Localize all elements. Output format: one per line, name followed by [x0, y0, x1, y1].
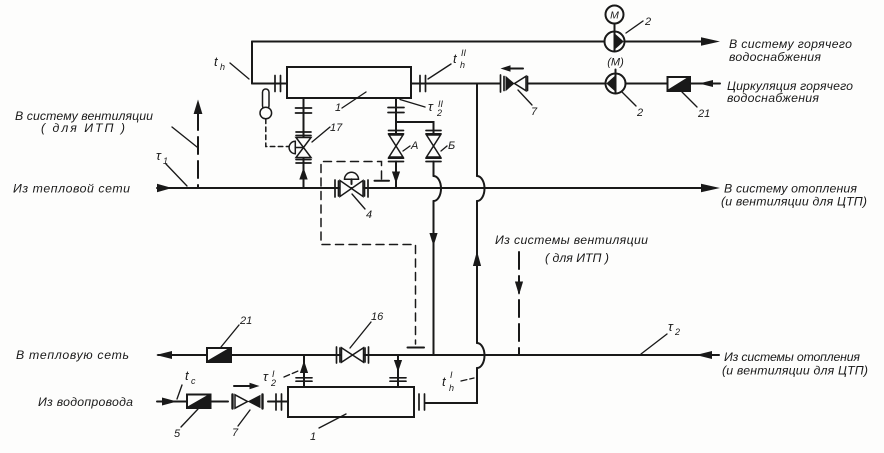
label tau2^I with leader: [263, 369, 298, 388]
label 2 (supply pump): [626, 16, 651, 33]
filter 21 (circulation line mud filter): [668, 77, 691, 91]
riser from HX2 to circulation junction: [425, 84, 485, 404]
label t_h^I with leader: [442, 370, 474, 393]
label tau2^II with leader: [400, 99, 444, 118]
label tau_1 with leader: [156, 148, 187, 186]
svg-text:c: c: [191, 376, 196, 386]
label 1 (bottom heat exchanger): [310, 414, 346, 443]
leader ventilation text: [172, 127, 197, 147]
valve 17 (temperature regulator valve): [289, 138, 311, 158]
wire check valve to pump: [528, 83, 606, 85]
wire branch to valve B: [396, 122, 434, 133]
heat exchanger 1 (stage II, top): [287, 67, 411, 98]
flange pair below valve 17: [296, 160, 311, 164]
thermometer (hot water sensor): [260, 89, 290, 147]
svg-text:В тепловую сеть: В тепловую сеть: [16, 348, 129, 362]
svg-text:В систему горячего: В систему горячего: [729, 37, 852, 51]
svg-text:Из водопровода: Из водопровода: [38, 395, 133, 409]
svg-text:1: 1: [163, 156, 168, 166]
label 17: [312, 122, 343, 142]
wire filter to circulation inlet arrow: [690, 83, 720, 85]
svg-text:21: 21: [697, 108, 710, 120]
arrow cold water in (points right): [162, 398, 177, 406]
wire HX1 right stub to junction: [411, 83, 500, 85]
flange pair below HX1 (tap): [296, 108, 312, 113]
control valve 4 (flow regulator): [335, 172, 368, 197]
wire main heat network line y=188: [157, 187, 703, 189]
arrow to heat network (points left): [156, 351, 172, 359]
arrow to heating system (right end): [701, 184, 720, 193]
label t_h with leader: [214, 54, 249, 79]
svg-text:2: 2: [644, 16, 651, 28]
label 21 (circulation filter): [682, 92, 710, 120]
wire cold water line y=401.5: [157, 401, 187, 403]
flange pair tau2 tap: [388, 108, 404, 113]
svg-text:2: 2: [436, 108, 442, 118]
svg-text:Из системы отопления: Из системы отопления: [724, 350, 860, 364]
dashed riser to ventilation system (ITP): [194, 100, 203, 189]
wire hot-water supply header t_h (top line y=41.5): [252, 41, 703, 43]
svg-text:В систему отопления: В систему отопления: [724, 182, 857, 196]
valve 17 branch: wire HX1 bottom-left tap: [303, 98, 305, 137]
arrow from heating system (points left, right end): [696, 351, 712, 359]
svg-text:16: 16: [371, 311, 384, 323]
wire HX1 bottom-right tap (tau2^II): [395, 98, 397, 133]
label t_h^II with leader: [428, 48, 467, 79]
svg-text:А: А: [410, 140, 418, 152]
svg-text:2: 2: [636, 107, 643, 119]
flange pair HX1 right: [420, 76, 426, 92]
svg-text:5: 5: [174, 428, 181, 440]
svg-text:2: 2: [674, 327, 680, 337]
svg-text:21: 21: [239, 315, 252, 327]
wire HX2 right tap down from return line with arrow: [394, 355, 402, 387]
svg-text:17: 17: [330, 122, 343, 134]
dashed impulse line of regulator: [321, 162, 416, 345]
svg-text:Из системы вентиляции: Из системы вентиляции: [495, 233, 648, 247]
label A: [403, 140, 418, 152]
filter 5 (cold water): [187, 395, 211, 409]
valve A: [389, 131, 404, 162]
valve B: [426, 131, 441, 162]
text annotations: [13, 37, 868, 409]
label 16: [350, 311, 384, 348]
label 5: [174, 409, 198, 440]
label 21 (return filter): [221, 315, 252, 347]
arrow to hot water system: [701, 37, 720, 46]
arrow circulation incoming (points left): [699, 80, 713, 87]
svg-text:водоснабжения: водоснабжения: [729, 50, 821, 64]
flange pair HX2 left: [276, 394, 282, 410]
svg-text:2: 2: [270, 378, 276, 388]
svg-text:(и вентиляции для ЦТП): (и вентиляции для ЦТП): [721, 195, 867, 209]
flange pair HX1 left: [275, 76, 281, 92]
arrow from heat network (points right at start): [157, 184, 172, 192]
svg-text:II: II: [461, 48, 467, 58]
pressure tap on return line: [408, 347, 425, 349]
wire return line y=355: [158, 354, 719, 356]
wire valve B down, hop over main line, to return line: [429, 162, 441, 356]
svg-text:4: 4: [366, 209, 372, 221]
label 2 (circulation pump): [622, 92, 643, 119]
pump 2 (hot water supply pump, flow right): [605, 6, 625, 52]
flange pair HX2 right tap: [390, 378, 406, 381]
flow arrow left above check valve 7: [501, 65, 524, 71]
pump 2 (circulation pump, flow left): [606, 57, 626, 94]
valve 16 (bypass gate valve): [337, 347, 369, 363]
svg-text:7: 7: [232, 427, 239, 439]
filter 21 (return line): [207, 348, 231, 362]
svg-text:М: М: [610, 10, 619, 22]
check valve 7 (circulation line): [501, 75, 528, 92]
wire pump to filter: [626, 83, 668, 85]
label t_c with leader: [177, 368, 196, 399]
flow arrow right above check valve 7: [234, 383, 260, 389]
wire HX1 left stub: [252, 83, 287, 85]
label 1 (top heat exchanger): [335, 92, 366, 114]
flange pair above valve 17: [296, 132, 311, 136]
label B: [441, 140, 455, 152]
svg-text:водоснабжения: водоснабжения: [727, 91, 819, 105]
label tau2 with leader: [641, 319, 680, 354]
label 4: [352, 194, 372, 221]
svg-text:h: h: [460, 60, 465, 70]
wire valve A down to main line with arrow: [392, 162, 400, 189]
svg-text:h: h: [449, 383, 454, 393]
svg-text:(и вентиляции для ЦТП): (и вентиляции для ЦТП): [722, 364, 868, 378]
label 7 (top check valve): [518, 90, 538, 118]
wire riser from HX1 left to header: [251, 42, 253, 84]
svg-text:( для ИТП ): ( для ИТП ): [545, 251, 609, 265]
arrow up into valve 17 branch: [299, 168, 307, 180]
svg-text:1: 1: [310, 431, 316, 443]
pressure tap after valve 4: [375, 180, 390, 182]
svg-text:1: 1: [335, 102, 341, 114]
check valve 7 (cold water, flow right): [233, 395, 263, 409]
svg-text:Б: Б: [448, 140, 455, 152]
svg-text:(М): (М): [607, 57, 624, 69]
svg-text:7: 7: [531, 106, 538, 118]
label 7 (cold water check valve): [232, 410, 250, 439]
svg-text:h: h: [220, 62, 225, 72]
svg-text:Из тепловой сети: Из тепловой сети: [13, 182, 130, 196]
wire HX2 left tap up to return line with arrow: [300, 355, 308, 387]
dashed line from ventilation system (ITP return): [515, 252, 523, 355]
flange pair HX2 right: [419, 394, 425, 410]
flange pair HX2 left tap: [296, 378, 312, 381]
heat exchanger 1 (stage I, bottom): [288, 387, 414, 417]
